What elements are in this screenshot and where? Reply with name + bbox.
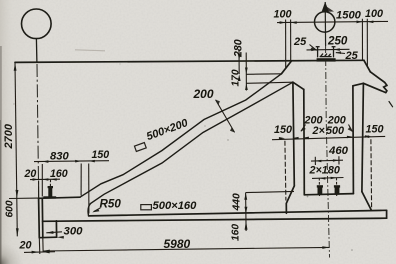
dim line 460 xyxy=(311,159,343,162)
ticks 460 xyxy=(314,157,316,165)
chord right end xyxy=(386,210,388,218)
ext line at level-2 xyxy=(246,73,281,76)
position balloon left xyxy=(22,9,52,39)
column left base flare xyxy=(286,186,294,213)
svg-text:200: 200 xyxy=(193,87,214,101)
ext line at level-3 xyxy=(246,82,293,83)
ext dash left 150 xyxy=(285,141,286,201)
column inner right vertical xyxy=(352,86,355,194)
dim 170 vertical xyxy=(245,53,247,91)
sloped beam top edge xyxy=(80,74,281,197)
corner vignette bottom-left xyxy=(0,0,1,1)
centerline of column with force arrow xyxy=(325,2,329,258)
5980 arrows xyxy=(43,250,50,253)
svg-text:170: 170 xyxy=(231,69,242,86)
break tail tick xyxy=(389,102,393,107)
dim 2700/600 vertical xyxy=(15,63,17,236)
svg-text:2×180: 2×180 xyxy=(309,165,340,177)
dim line 2x180 xyxy=(312,177,344,180)
leader 300 xyxy=(46,232,62,233)
anchor bolt left bracket xyxy=(48,187,52,197)
column outer right vertical xyxy=(362,83,364,191)
plate symbol 500x200 (rotated) xyxy=(134,143,146,152)
460 arrows xyxy=(315,160,321,163)
anchor recess floor xyxy=(304,194,353,195)
force arrowhead xyxy=(322,2,329,12)
plate symbol 500x160 xyxy=(141,205,152,210)
faint smudge xyxy=(75,50,105,51)
bottom chord bottom edge xyxy=(43,218,387,221)
ext 92.6 xyxy=(88,164,90,214)
ext 42.3 up xyxy=(41,164,43,197)
leader R50 xyxy=(94,208,101,212)
ext 84.9 xyxy=(80,164,82,196)
svg-text:150: 150 xyxy=(92,149,110,161)
bolt centerlines right xyxy=(318,178,320,196)
head right chamfer xyxy=(364,60,370,72)
2700 bottom arrow at y198 (down, long head) xyxy=(16,190,19,198)
break mark xyxy=(384,85,387,92)
rail dim arrows xyxy=(311,49,317,52)
end plate inner edge xyxy=(41,198,44,237)
rail dim line 250 xyxy=(307,48,350,51)
svg-text:2700: 2700 xyxy=(3,123,15,149)
head left chamfer xyxy=(281,61,291,74)
ext plate lines down xyxy=(38,238,41,254)
main dim line y138 xyxy=(272,136,385,139)
svg-text:100: 100 xyxy=(274,9,292,21)
svg-text:5980: 5980 xyxy=(164,237,191,251)
svg-text:150: 150 xyxy=(366,124,384,136)
sloped beam bottom edge with R50 fillet xyxy=(88,82,293,216)
ext lines top dims xyxy=(285,20,287,69)
svg-text:20: 20 xyxy=(19,240,32,252)
end plate outer edge xyxy=(38,198,41,237)
section mark arrows xyxy=(215,100,220,105)
160 arrow (long head below tip at chord bottom) xyxy=(245,221,248,230)
top dims arrows xyxy=(280,21,286,24)
svg-text:1500: 1500 xyxy=(336,10,362,22)
rail sole plate (dark) xyxy=(317,58,336,61)
svg-text:830: 830 xyxy=(50,150,69,162)
scan speckles xyxy=(13,64,352,251)
position balloon top xyxy=(315,12,335,32)
left centerline dashed xyxy=(37,64,39,198)
dim line 5980 xyxy=(43,247,330,251)
foot bottom xyxy=(39,236,56,239)
R50 leader arrowhead xyxy=(92,209,99,213)
dim line 20/160 xyxy=(30,178,60,180)
section mark across beam xyxy=(216,100,235,133)
svg-text:500: 500 xyxy=(326,125,344,137)
dim line 830/150 xyxy=(34,160,109,163)
top reference line xyxy=(15,60,364,62)
right stub top edge xyxy=(370,72,387,86)
830 arrows xyxy=(42,160,48,163)
svg-text:300: 300 xyxy=(64,226,84,238)
column right base flare xyxy=(362,192,371,210)
dim line 20 bottom xyxy=(24,251,55,254)
2x180 arrows xyxy=(319,177,325,180)
svg-text:460: 460 xyxy=(328,145,349,157)
bolt centerline left xyxy=(49,180,51,186)
svg-text:160: 160 xyxy=(50,168,68,180)
leader 25 left xyxy=(310,45,317,51)
column inner left vertical xyxy=(303,89,306,194)
ext at bolt floor level to left xyxy=(246,191,294,192)
column outer left vertical xyxy=(293,82,294,186)
20/160 arrows xyxy=(33,178,39,181)
foot step arrow xyxy=(57,236,64,239)
leader 25 right xyxy=(336,52,345,55)
svg-text:280: 280 xyxy=(233,39,245,58)
600 bottom arrow at y236 (long head above) xyxy=(16,228,19,236)
svg-text:150: 150 xyxy=(274,124,292,136)
svg-text:440: 440 xyxy=(232,193,243,212)
leader 25 arrow xyxy=(310,47,316,50)
svg-text:500×160: 500×160 xyxy=(153,200,198,212)
left balloon stem xyxy=(35,39,38,63)
anchor bolt right 1 xyxy=(318,186,323,195)
ext at bracket top left xyxy=(9,197,38,199)
anchor bolt right 2 xyxy=(335,186,340,195)
leader 200 left xyxy=(301,125,306,132)
leader 200 right xyxy=(349,125,353,132)
bracket top edge xyxy=(39,197,80,198)
rail channel on head xyxy=(316,47,336,58)
svg-text:2×: 2× xyxy=(312,125,326,137)
svg-text:250: 250 xyxy=(327,35,348,48)
bolt base plate left xyxy=(43,196,56,198)
right stub bottom edge xyxy=(363,83,385,92)
svg-text:20: 20 xyxy=(24,168,37,180)
280 arrows xyxy=(238,54,241,61)
20 bottom arrows xyxy=(32,251,39,254)
head-to-web slant left xyxy=(293,82,304,89)
svg-text:25: 25 xyxy=(345,50,359,62)
head-to-web slant right xyxy=(353,83,364,86)
svg-text:600: 600 xyxy=(5,200,16,217)
170 arrows xyxy=(245,68,248,75)
svg-text:R50: R50 xyxy=(100,198,122,211)
dim 440/160 vertical xyxy=(245,193,248,231)
top dimension line 100/1500/100 xyxy=(277,21,388,22)
y138 dim arrows xyxy=(279,137,285,140)
bottom chord top edge xyxy=(89,210,387,216)
svg-text:100: 100 xyxy=(365,8,383,20)
440 arrows (inside) xyxy=(244,193,247,200)
svg-text:160: 160 xyxy=(231,224,242,241)
2700 arrow top (up) xyxy=(14,63,17,71)
ext dash right 150 xyxy=(370,139,373,208)
dim 280 vertical xyxy=(238,50,240,75)
leader 200 arrows xyxy=(301,127,306,132)
300 leader arrow xyxy=(46,231,53,234)
svg-text:25: 25 xyxy=(293,36,307,48)
ext plate outer up xyxy=(38,181,40,198)
foot right step xyxy=(55,221,57,237)
